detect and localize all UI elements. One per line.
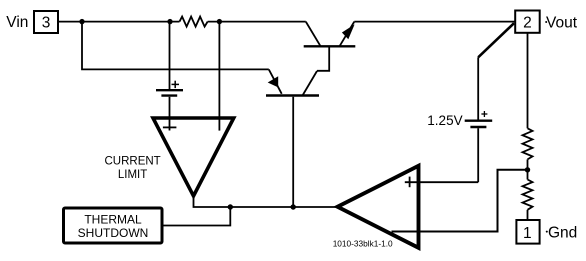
junction dot B: [167, 19, 172, 24]
svg-text:SHUTDOWN: SHUTDOWN: [78, 226, 149, 240]
transistor Q2 (NPN pass): [304, 22, 356, 71]
op-amp U2 error amplifier: [338, 166, 419, 248]
svg-text:THERMAL: THERMAL: [84, 212, 142, 226]
node Vout label: [545, 15, 578, 32]
svg-text:Vout: Vout: [546, 15, 578, 32]
junction dot C: [217, 19, 222, 24]
wire U2 plus input: [405, 181, 478, 183]
wire top rail left: [59, 21, 180, 23]
wire top rail middle: [208, 21, 306, 23]
block thermal shutdown: [64, 208, 163, 243]
transistor Q1 (PNP pass): [266, 69, 319, 207]
junction dot D: [228, 204, 233, 209]
wire thermal shutdown output: [164, 207, 231, 226]
label 1.25V: [427, 113, 462, 128]
wire divider middle: [527, 159, 529, 179]
node Vin label: [6, 14, 28, 31]
junction dot E: [291, 204, 296, 209]
wire Vout to divider: [527, 33, 529, 129]
wire top rail right: [354, 21, 515, 23]
junction dot A: [79, 19, 84, 24]
label CURRENT LIMIT: [104, 155, 160, 181]
svg-text:1010-33blk1-1.0: 1010-33blk1-1.0: [333, 239, 393, 249]
junction dot F: [525, 167, 530, 172]
svg-text:CURRENT: CURRENT: [104, 155, 160, 167]
pin 2 box: [515, 11, 540, 33]
svg-text:LIMIT: LIMIT: [118, 169, 147, 181]
resistor R1 (sense): [180, 17, 208, 27]
label part number: [333, 239, 393, 249]
node Gnd label: [546, 225, 578, 242]
resistor R2: [523, 128, 533, 159]
wire U2 minus input: [392, 170, 528, 232]
wire Vin to Q1 emitter: [82, 22, 269, 70]
current source CS1: [156, 22, 183, 131]
svg-text:3: 3: [42, 15, 51, 32]
wire R3 to Gnd pin: [527, 210, 529, 219]
svg-text:1: 1: [523, 225, 532, 242]
wire sense to current limit minus: [218, 22, 220, 131]
svg-text:Gnd: Gnd: [548, 225, 577, 242]
op-amp U1 current limit: [153, 118, 234, 196]
svg-text:1.25V: 1.25V: [427, 113, 462, 128]
pin 1 box: [516, 220, 539, 244]
pin 3 box: [34, 11, 58, 33]
wire Vout to reference: [478, 23, 514, 57]
svg-text:Vin: Vin: [6, 14, 28, 31]
svg-text:2: 2: [523, 15, 532, 32]
reference 1.25V battery: [465, 57, 493, 182]
wire U1 output: [194, 194, 338, 207]
resistor R3: [523, 180, 533, 210]
